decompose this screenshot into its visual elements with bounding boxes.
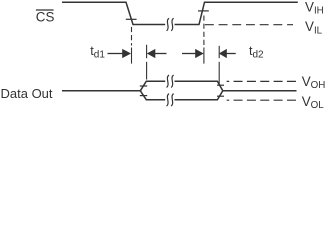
tick on merge upper diagonal — [217, 84, 224, 86]
break on bottom bus line: curve 2 — [171, 94, 173, 107]
tick on merge lower diagonal — [217, 95, 224, 97]
arrowhead left (td1 right arrow) — [147, 49, 156, 58]
top bus line after break + merge diagonal — [175, 81, 223, 91]
arrowhead right (td1 left arrow) — [122, 49, 131, 58]
arrowhead right (td2 left arrow) — [195, 49, 204, 58]
Data Out split lower diagonal + bottom bus line to break — [140, 91, 165, 100]
arrowhead left (td2 right arrow) — [219, 49, 227, 58]
Data Out mid line left — [62, 90, 140, 92]
VOH dashed level line — [227, 80, 296, 82]
tick on split lower diagonal — [140, 95, 147, 97]
tick on CS falling edge (VIL crossing) — [126, 18, 137, 20]
CS waveform left: high, fall, low to break — [62, 2, 165, 24]
tick on split upper diagonal — [140, 85, 147, 87]
arrow shaft left-pointing (td2 right) — [226, 53, 236, 55]
svg-text:CS: CS — [36, 9, 55, 24]
svg-text:td1: td1 — [90, 44, 105, 61]
vertical dashed line td1 start (x=131.4) — [131, 27, 133, 46]
Data Out mid line right — [223, 90, 297, 92]
svg-text:td2: td2 — [249, 44, 264, 61]
vertical dashed line td2 end (x=218.9) — [218, 46, 220, 58]
vertical dashed line td2 start (x=203.7) — [203, 16, 205, 46]
arrow shaft right-pointing (td1 left) — [108, 53, 124, 55]
break on top bus line: curve 1 — [167, 75, 169, 88]
svg-text:VOL: VOL — [302, 94, 325, 111]
tick on CS rising edge (VIH crossing) — [198, 10, 209, 12]
svg-text:Data Out: Data Out — [1, 86, 53, 101]
break on top bus line: curve 2 — [171, 75, 173, 88]
svg-text:VIL: VIL — [305, 19, 323, 37]
break on CS low line: curve 1 — [167, 18, 169, 31]
VIL dashed level line — [205, 24, 293, 26]
svg-text:VOH: VOH — [302, 74, 326, 91]
Data Out split upper diagonal + top bus line to break — [140, 81, 165, 91]
wire: CS low after break, rise, high right — [175, 2, 298, 24]
break on CS low line: curve 2 — [171, 18, 173, 31]
break on bottom bus line: curve 1 — [167, 94, 169, 107]
arrow shaft left-pointing (td1 right) — [155, 53, 167, 55]
bottom bus line after break + merge diagonal — [175, 91, 223, 100]
VOL dashed level line — [227, 99, 296, 101]
vertical dashed line td1 end (x=146.6) — [146, 45, 148, 58]
arrow shaft right-pointing (td2 left) — [182, 53, 196, 55]
svg-text:VIH: VIH — [305, 0, 324, 17]
